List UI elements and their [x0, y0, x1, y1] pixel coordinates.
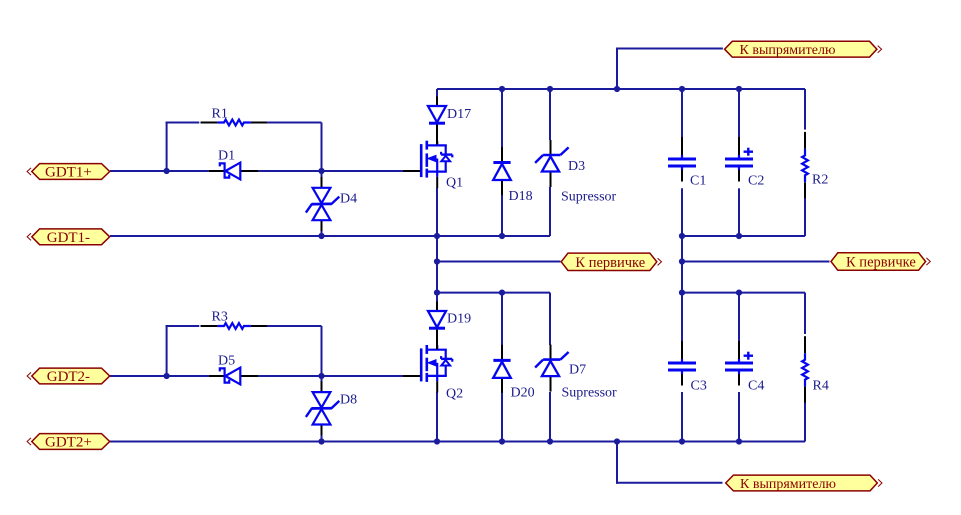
TVS diode D4 — [306, 177, 357, 231]
svg-text:Q1: Q1 — [446, 176, 463, 191]
wire GDT1+ flag to D1 — [110, 170, 209, 172]
resistor R1 — [201, 107, 267, 126]
wire D3 column top — [549, 89, 551, 140]
port flag GDT1+ — [27, 164, 110, 181]
svg-text:C4: C4 — [748, 379, 764, 394]
junction top rail / D18 — [499, 86, 505, 92]
junction lower cap rail / C1 column — [679, 233, 685, 239]
junction GDT2+ / D8 — [318, 438, 324, 444]
svg-text:D4: D4 — [340, 192, 357, 207]
wire D5 to Q2 gate — [258, 375, 403, 377]
junction top rail / D3 — [547, 86, 553, 92]
value label Supressor for D7 — [562, 386, 618, 401]
svg-text:GDT2+: GDT2+ — [45, 435, 92, 451]
capacitor C3 — [668, 341, 707, 394]
diode D5 — [209, 354, 259, 385]
wire D18 column bottom — [501, 195, 503, 236]
wire D20 column top — [501, 293, 503, 345]
TVS diode D7 (Supressor) — [535, 345, 586, 392]
diode D17 — [428, 97, 471, 145]
TVS diode D8 — [306, 381, 357, 435]
junction lower rail / Q2 drain — [434, 290, 440, 296]
junction lower rail / C3 — [679, 290, 685, 296]
svg-text:D17: D17 — [447, 107, 471, 122]
junction lower rail / D20 — [499, 290, 505, 296]
junction top rail / rectifier riser — [614, 86, 620, 92]
wire D1 to Q1 gate — [258, 170, 403, 172]
junction GDT2- / R3 loop — [164, 373, 170, 379]
wire C4 column bottom — [738, 392, 740, 442]
net flag K pervichke left — [561, 253, 661, 271]
port flag GDT2- — [27, 368, 110, 385]
junction GDT2+ / C4 — [736, 438, 742, 444]
wire right primary flag — [682, 261, 830, 263]
wire to top rectifier flag — [616, 48, 723, 90]
wire lower left rail — [436, 292, 550, 294]
wire D4 to GDT1- rail — [321, 230, 323, 236]
junction GDT1- / D4 — [318, 233, 324, 239]
wire D18 column top — [501, 89, 503, 147]
wire GDT2- flag to D5 — [110, 375, 209, 377]
svg-text:К первичке: К первичке — [575, 255, 645, 271]
transistor Q2 — [403, 345, 463, 402]
svg-text:D20: D20 — [511, 386, 535, 401]
wire R1 loop right — [266, 123, 322, 172]
svg-text:C3: C3 — [691, 379, 707, 394]
net flag K pervichke right — [831, 253, 930, 271]
svg-text:R1: R1 — [212, 107, 228, 122]
wire Q1 source to primary node — [436, 188, 438, 302]
svg-text:R3: R3 — [212, 310, 228, 325]
resistor R3 — [201, 310, 267, 329]
svg-text:D19: D19 — [447, 312, 471, 327]
svg-text:К выпрямителю: К выпрямителю — [740, 477, 836, 492]
junction GDT2+ / D7 — [547, 438, 553, 444]
diode D1 — [209, 149, 259, 180]
svg-text:D18: D18 — [509, 189, 533, 204]
net flag K vypryamitelyu top — [725, 41, 882, 58]
svg-text:D5: D5 — [218, 354, 235, 369]
svg-text:Supressor: Supressor — [562, 386, 618, 401]
junction primary node right — [679, 258, 685, 264]
wire Q2 gate node to D8 — [321, 376, 323, 384]
wire D7 column bottom — [549, 392, 551, 442]
wire C4 column top — [738, 293, 740, 341]
wire D17 top pin stub — [436, 89, 438, 97]
wire R3 loop right — [266, 326, 322, 376]
junction top rail / C1 — [679, 86, 685, 92]
wire C1 column — [681, 89, 683, 442]
svg-text:К первичке: К первичке — [846, 255, 916, 271]
transistor Q1 — [403, 141, 463, 191]
resistor R2 — [802, 132, 828, 198]
junction GDT2- / D8 — [318, 373, 324, 379]
wire D20 column bottom — [501, 390, 503, 442]
svg-text:D3: D3 — [568, 159, 585, 174]
wire cap bank lower rail top half — [682, 235, 805, 237]
junction GDT2+ / Q2 source — [434, 438, 440, 444]
wire Q2 source to GDT2+ rail — [436, 392, 438, 442]
resistor R4 — [802, 336, 829, 402]
junction top rail / C2 — [736, 86, 742, 92]
wire R4 column — [804, 293, 806, 442]
junction GDT2+ / C3 — [679, 438, 685, 444]
svg-text:К выпрямителю: К выпрямителю — [740, 43, 836, 58]
junction lower rail / C4 — [736, 290, 742, 296]
diode D19 — [428, 302, 471, 350]
junction GDT1+ / R1 loop — [164, 168, 170, 174]
junction lower cap rail / C2 — [736, 233, 742, 239]
svg-text:GDT1-: GDT1- — [47, 230, 90, 246]
wire lower right rail — [682, 292, 805, 294]
capacitor C1 — [668, 137, 706, 188]
junction GDT1+ / D4 — [318, 168, 324, 174]
svg-text:GDT1+: GDT1+ — [45, 165, 92, 181]
junction GDT2+ / D20 — [499, 438, 505, 444]
wire R1 loop left — [166, 122, 200, 172]
svg-text:Q2: Q2 — [446, 387, 463, 402]
svg-text:D1: D1 — [218, 149, 235, 164]
wire D7 column top — [549, 293, 551, 345]
wire D8 to GDT2+ rail — [321, 425, 323, 442]
wire Q1 gate node to D4 — [321, 171, 323, 178]
junction GDT1- / Q1 source — [434, 233, 440, 239]
svg-text:C2: C2 — [748, 173, 764, 188]
wire C2 column bottom — [738, 188, 740, 236]
junction GDT2+ / rectifier riser — [614, 438, 620, 444]
capacitor C4 — [725, 341, 764, 394]
wire GDT2+ rail — [110, 441, 805, 443]
net flag K vypryamitelyu bottom — [726, 475, 882, 492]
wire top rail — [437, 88, 805, 90]
svg-text:Supressor: Supressor — [561, 190, 617, 205]
wire R2 column — [804, 89, 806, 236]
svg-text:R2: R2 — [812, 173, 828, 188]
wire R3 loop left — [166, 325, 200, 376]
svg-text:R4: R4 — [813, 379, 829, 394]
wire GDT1- rail — [110, 235, 550, 237]
svg-text:D8: D8 — [340, 393, 357, 408]
port flag GDT1- — [27, 229, 110, 246]
junction primary node left — [434, 258, 440, 264]
svg-text:C1: C1 — [690, 173, 706, 188]
wire to bottom rectifier flag — [616, 442, 723, 484]
value label Supressor for D3 — [561, 190, 617, 205]
junction GDT1- / D18 — [499, 233, 505, 239]
wire D3 column bottom — [549, 187, 551, 236]
svg-text:GDT2-: GDT2- — [47, 369, 90, 385]
wire C2 column top — [738, 89, 740, 137]
diode D20 — [493, 345, 534, 401]
wire left primary flag — [437, 261, 561, 263]
TVS diode D3 (Supressor) — [535, 140, 585, 187]
capacitor C2 — [725, 137, 764, 188]
port flag GDT2+ — [27, 434, 110, 451]
svg-text:D7: D7 — [569, 363, 586, 378]
diode D18 — [493, 147, 532, 204]
